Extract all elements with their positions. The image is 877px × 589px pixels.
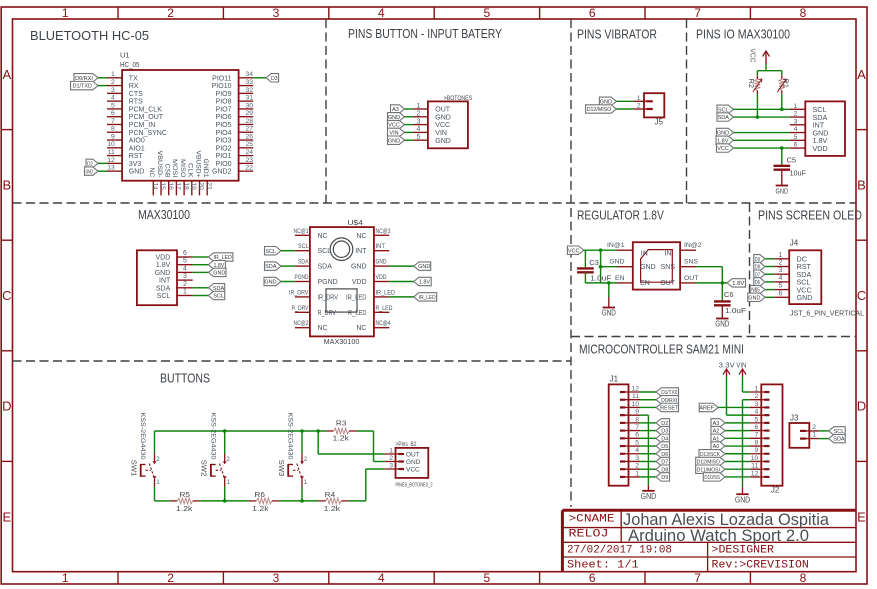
svg-text:3: 3 [755,401,759,408]
svg-text:3: 3 [389,463,393,470]
svg-text:4: 4 [378,571,385,585]
svg-text:GND: GND [388,138,400,144]
svg-text:E: E [857,509,866,524]
svg-text:1: 1 [812,432,816,439]
svg-text:SCL: SCL [318,248,332,255]
svg-text:R_LED: R_LED [376,305,393,312]
svg-text:NC: NC [148,168,155,178]
svg-text:2: 2 [637,103,641,110]
svg-text:PIO0: PIO0 [216,161,232,168]
svg-text:4: 4 [111,95,115,102]
svg-text:VDD: VDD [156,255,171,262]
svg-text:SW3: SW3 [277,460,284,477]
svg-text:2: 2 [183,281,187,288]
svg-text:MAX30100: MAX30100 [324,337,360,346]
svg-text:1: 1 [779,252,783,259]
svg-text:RESET: RESET [660,406,679,412]
svg-text:AREF: AREF [699,406,714,412]
svg-text:A: A [2,67,11,82]
svg-text:VCC: VCC [717,146,729,152]
svg-text:6: 6 [794,142,798,149]
svg-text:VCC: VCC [749,49,758,64]
svg-text:U$4: U$4 [348,218,363,227]
svg-text:VDD: VDD [813,144,828,153]
svg-text:14: 14 [152,183,159,191]
svg-text:1: 1 [62,6,69,20]
svg-text:2: 2 [755,393,759,400]
svg-text:VIN: VIN [736,361,746,370]
svg-text:EN: EN [640,280,650,287]
svg-text:NC@3: NC@3 [376,228,391,235]
svg-text:IR_LED: IR_LED [376,289,396,296]
svg-text:8: 8 [800,6,807,20]
svg-text:RX: RX [129,83,139,90]
svg-text:PCM_IN: PCM_IN [129,122,155,129]
svg-text:D12/MISO: D12/MISO [587,107,612,113]
svg-text:NC@2: NC@2 [294,320,309,327]
svg-text:8: 8 [755,439,759,446]
svg-text:PIO9: PIO9 [216,91,232,98]
svg-text:D9: D9 [661,475,668,481]
svg-text:8: 8 [111,126,115,133]
svg-text:D10/SS: D10/SS [704,475,720,481]
svg-text:U1: U1 [120,51,130,60]
svg-text:CLK: CLK [187,163,194,178]
svg-text:SNS: SNS [684,259,698,266]
svg-text:OUT: OUT [660,280,676,287]
svg-text:GND: GND [129,169,145,176]
svg-text:SCL: SCL [298,243,309,250]
svg-text:3V3: 3V3 [129,161,142,168]
svg-text:3: 3 [417,118,421,125]
svg-text:PGND: PGND [318,279,338,286]
svg-text:1: 1 [156,479,160,486]
svg-text:7: 7 [111,118,115,125]
svg-text:5: 5 [794,134,798,141]
svg-text:33: 33 [245,79,253,86]
svg-text:2: 2 [304,456,308,463]
svg-text:8: 8 [800,571,807,585]
svg-text:10: 10 [631,401,639,408]
svg-text:VBUSD-: VBUSD- [156,151,163,178]
svg-text:GND: GND [418,264,430,270]
svg-text:4: 4 [635,447,639,454]
svg-text:NC@1: NC@1 [294,228,309,235]
svg-text:PIO1: PIO1 [216,153,232,160]
svg-text:SDA: SDA [718,115,730,121]
svg-text:7: 7 [755,432,759,439]
svg-text:1.8V: 1.8V [419,280,431,286]
svg-text:Sheet: 1/1: Sheet: 1/1 [567,559,639,571]
svg-text:5: 5 [183,258,187,265]
svg-text:SDA: SDA [265,264,277,270]
svg-text:5: 5 [111,102,115,109]
svg-text:PCN_SYNC: PCN_SYNC [129,130,167,137]
svg-text:SCL: SCL [213,294,224,300]
svg-text:GND: GND [640,264,656,271]
svg-text:INT: INT [159,278,171,285]
svg-text:SCL: SCL [157,293,171,300]
svg-text:REGULATOR 1.8V: REGULATOR 1.8V [577,208,664,223]
svg-text:7: 7 [694,571,701,585]
svg-text:7: 7 [694,6,701,20]
svg-text:2: 2 [389,455,393,462]
svg-text:4: 4 [183,265,187,272]
svg-text:SCL: SCL [265,249,276,255]
svg-text:SNS: SNS [661,264,676,271]
svg-text:IN@1: IN@1 [607,242,625,249]
svg-text:GND: GND [797,293,813,302]
svg-text:PINS VIBRATOR: PINS VIBRATOR [577,27,657,42]
svg-text:PIO6: PIO6 [216,114,232,121]
svg-text:2: 2 [812,424,816,431]
svg-text:3: 3 [779,267,783,274]
svg-text:1: 1 [635,470,639,477]
svg-text:SDA: SDA [156,285,171,292]
svg-text:VDD: VDD [352,279,367,286]
svg-text:NC: NC [356,233,366,240]
svg-text:CTS: CTS [129,91,143,98]
svg-text:R_LED: R_LED [348,310,367,317]
svg-text:1: 1 [227,479,231,486]
svg-text:GND: GND [641,491,657,501]
svg-text:1: 1 [794,103,798,110]
svg-text:4: 4 [378,6,385,20]
svg-text:GND: GND [351,264,367,271]
svg-text:24: 24 [245,149,253,156]
svg-text:VIN: VIN [435,130,447,137]
svg-text:VCC: VCC [435,122,450,129]
svg-text:NC: NC [318,325,328,332]
svg-text:NC: NC [356,325,366,332]
svg-text:IR_LED: IR_LED [346,294,367,301]
svg-text:3: 3 [794,118,798,125]
svg-text:2: 2 [794,111,798,118]
svg-text:EN: EN [615,275,625,282]
svg-text:1: 1 [389,448,393,455]
svg-text:IR_DRV: IR_DRV [289,289,309,296]
svg-text:1.0uF: 1.0uF [590,273,611,282]
svg-text:MAX30100: MAX30100 [138,207,190,222]
svg-text:PIO11: PIO11 [212,75,231,82]
svg-text:2: 2 [167,6,174,20]
svg-text:34: 34 [245,71,253,78]
svg-text:D3: D3 [271,76,277,82]
svg-text:1.2k: 1.2k [252,504,269,513]
svg-text:SDA: SDA [318,264,333,271]
svg-text:SW2: SW2 [200,460,207,477]
svg-text:11: 11 [632,393,639,400]
svg-text:1.8V: 1.8V [732,281,745,287]
svg-text:GND: GND [715,320,729,329]
svg-text:32: 32 [245,87,253,94]
svg-text:9: 9 [635,409,639,416]
svg-text:C: C [857,288,866,303]
svg-text:12: 12 [107,157,115,164]
svg-text:MISO: MISO [179,159,186,178]
svg-text:PIO4: PIO4 [216,130,232,137]
svg-text:VCC: VCC [568,248,580,254]
svg-text:SDA: SDA [298,259,309,266]
svg-text:12: 12 [631,385,639,392]
svg-text:5: 5 [779,283,783,290]
svg-text:PINS SCREEN OLED: PINS SCREEN OLED [758,208,862,223]
svg-text:1: 1 [755,385,759,392]
svg-text:B: B [2,178,11,193]
svg-text:PIO5: PIO5 [216,122,232,129]
svg-text:2: 2 [226,456,230,463]
svg-text:JST_6_PIN_VERTICAL: JST_6_PIN_VERTICAL [790,311,864,318]
svg-text:5: 5 [483,6,490,20]
svg-text:2: 2 [167,571,174,585]
svg-text:MOSI: MOSI [171,159,178,178]
svg-text:1: 1 [111,71,115,78]
svg-text:12: 12 [751,470,759,477]
svg-text:23: 23 [245,157,253,164]
svg-text:4: 4 [417,126,421,133]
svg-text:OUT: OUT [684,275,698,282]
svg-text:3: 3 [273,6,280,20]
svg-text:>DESIGNER: >DESIGNER [712,544,775,556]
svg-text:9: 9 [111,133,115,140]
svg-text:PIO3: PIO3 [216,138,232,145]
svg-text:2: 2 [156,456,160,463]
svg-text:18: 18 [182,183,189,191]
svg-text:J5: J5 [655,118,664,127]
svg-text:1.2k: 1.2k [333,434,350,443]
svg-text:R_DRV: R_DRV [318,310,337,317]
svg-text:4: 4 [794,126,798,133]
svg-text:10: 10 [751,455,759,462]
svg-text:AIO1: AIO1 [129,145,145,152]
svg-text:19: 19 [190,183,197,191]
svg-text:17: 17 [175,183,182,191]
svg-text:29: 29 [245,110,253,117]
svg-text:D1/TXD: D1/TXD [72,84,92,90]
svg-text:GND: GND [213,271,225,277]
svg-text:11: 11 [751,463,758,470]
svg-text:R4: R4 [325,490,336,499]
svg-text:R3: R3 [336,419,347,428]
svg-text:D: D [2,399,11,414]
svg-text:NC@4: NC@4 [376,320,391,327]
svg-text:VBUSD+: VBUSD+ [194,151,201,178]
svg-text:R5: R5 [180,490,191,499]
svg-text:6: 6 [635,432,639,439]
svg-text:PINES_BOTONES_2: PINES_BOTONES_2 [396,483,433,489]
svg-text:3: 3 [183,273,187,280]
svg-text:16: 16 [167,183,174,191]
svg-text:J3: J3 [790,414,799,423]
svg-text:11: 11 [108,149,115,156]
svg-text:Rev:>CREVISION: Rev:>CREVISION [712,559,809,571]
svg-text:IN@2: IN@2 [684,242,702,249]
svg-text:1.8V: 1.8V [156,262,171,269]
svg-text:D: D [857,399,866,414]
svg-text:2: 2 [111,79,115,86]
svg-text:GND: GND [776,187,789,196]
svg-text:30: 30 [245,102,253,109]
svg-text:C: C [2,288,11,303]
svg-text:1.0uF: 1.0uF [725,306,746,315]
svg-text:1: 1 [183,289,187,296]
svg-text:4: 4 [755,409,759,416]
svg-text:GND: GND [406,459,421,466]
svg-text:2: 2 [779,260,783,267]
svg-text:C3: C3 [589,258,599,267]
svg-text:IR_LED: IR_LED [419,295,436,301]
svg-text:IR_DRV: IR_DRV [318,294,339,301]
svg-text:HC_05: HC_05 [120,60,140,69]
svg-text:6: 6 [589,6,596,20]
svg-text:E: E [2,509,11,524]
svg-text:31: 31 [245,95,253,102]
svg-text:RELOJ: RELOJ [569,529,609,541]
svg-text:PGND: PGND [295,274,309,281]
svg-text:PIO7: PIO7 [216,106,232,113]
svg-text:GND: GND [376,259,387,266]
svg-text:J1: J1 [610,375,619,384]
svg-text:VCC: VCC [406,466,420,473]
svg-text:6: 6 [183,250,187,257]
svg-text:KSS-2EG4430: KSS-2EG4430 [209,413,216,460]
svg-text:GND2: GND2 [212,169,232,176]
svg-text:1: 1 [637,95,641,102]
svg-text:9: 9 [755,447,759,454]
svg-text:GND: GND [735,495,750,504]
svg-text:GND1: GND1 [202,159,209,178]
svg-text:8: 8 [635,416,639,423]
svg-text:IN: IN [641,250,648,257]
svg-text:C6: C6 [724,290,734,299]
svg-text:GND: GND [435,138,451,145]
svg-text:B: B [857,178,866,193]
svg-text:PIO8: PIO8 [216,99,232,106]
svg-text:GND: GND [435,114,451,121]
svg-text:AIO0: AIO0 [129,138,145,145]
svg-text:CSB: CSB [164,164,171,178]
svg-text:3.3V: 3.3V [719,361,735,370]
svg-text:4: 4 [779,275,783,282]
svg-text:RTS: RTS [129,99,143,106]
svg-text:PCM_OUT: PCM_OUT [129,114,164,121]
svg-text:5: 5 [635,439,639,446]
svg-text:1.2k: 1.2k [176,504,193,513]
svg-text:7: 7 [635,424,639,431]
svg-text:PCM_CLK: PCM_CLK [129,106,162,113]
svg-text:25: 25 [245,141,253,148]
svg-text:MICROCONTROLLER SAM21 MINI: MICROCONTROLLER SAM21 MINI [579,342,744,357]
svg-text:27: 27 [245,126,253,133]
svg-text:10uF: 10uF [790,169,807,178]
svg-text:6: 6 [111,110,115,117]
svg-text:GND: GND [609,259,624,266]
svg-text:IN: IN [665,250,672,257]
svg-text:21: 21 [205,183,212,191]
svg-text:GND: GND [155,270,171,277]
svg-text:GND: GND [264,280,276,286]
svg-text:J4: J4 [790,239,799,248]
svg-text:INT: INT [355,248,367,255]
svg-text:27/02/2017 19:08: 27/02/2017 19:08 [567,544,672,556]
svg-text:6: 6 [589,571,596,585]
svg-text:PIO2: PIO2 [216,145,232,152]
svg-text:22: 22 [245,165,253,172]
svg-text:R2: R2 [747,79,754,89]
svg-text:6: 6 [755,424,759,431]
svg-text:R_DRV: R_DRV [292,305,310,312]
svg-text:13: 13 [107,165,115,172]
svg-text:3: 3 [635,455,639,462]
svg-text:NC: NC [318,233,328,240]
svg-text:6: 6 [779,290,783,297]
svg-text:Arduino Watch Sport 2.0: Arduino Watch Sport 2.0 [628,526,809,545]
svg-text:SDA: SDA [833,437,845,443]
svg-text:A: A [857,67,866,82]
svg-text:RST: RST [129,153,144,160]
svg-text:OUT: OUT [435,107,451,114]
svg-text:5: 5 [417,134,421,141]
svg-text:KSS-2EG4430: KSS-2EG4430 [139,413,146,460]
svg-text:1: 1 [417,103,421,110]
svg-text:>CNAME: >CNAME [569,514,615,526]
svg-text:INT: INT [376,243,386,250]
svg-text:R6: R6 [254,490,265,499]
svg-text:GND: GND [86,169,93,175]
svg-text:1.2k: 1.2k [324,504,341,513]
svg-text:1: 1 [304,479,308,486]
svg-text:KSS-2EG4430: KSS-2EG4430 [287,413,294,460]
svg-text:C5: C5 [787,155,797,164]
svg-text:GND: GND [602,309,616,318]
svg-text:GND: GND [748,295,760,301]
svg-text:3: 3 [273,571,280,585]
svg-text:2: 2 [417,111,421,118]
svg-text:VDD: VDD [376,274,387,281]
svg-text:PINS IO MAX30100: PINS IO MAX30100 [696,27,790,42]
svg-text:1: 1 [62,571,69,585]
svg-text:26: 26 [245,133,253,140]
svg-text:15: 15 [159,183,166,191]
svg-text:TX: TX [129,75,138,82]
svg-text:28: 28 [245,118,253,125]
svg-text:R1: R1 [782,79,789,89]
svg-text:PINS BUTTON - INPUT BATERY: PINS BUTTON - INPUT BATERY [348,26,502,41]
svg-text:BUTTONS: BUTTONS [160,371,210,386]
svg-text:10: 10 [107,141,115,148]
svg-text:5: 5 [755,416,759,423]
svg-text:BLUETOOTH HC-05: BLUETOOTH HC-05 [30,28,149,43]
svg-text:5: 5 [483,571,490,585]
svg-text:SW1: SW1 [129,460,136,477]
svg-text:OUT: OUT [406,451,420,458]
svg-text:PIO10: PIO10 [212,83,232,90]
svg-text:20: 20 [198,183,205,191]
svg-text:J2: J2 [771,486,780,495]
svg-text:2: 2 [635,463,639,470]
svg-text:3: 3 [111,87,115,94]
